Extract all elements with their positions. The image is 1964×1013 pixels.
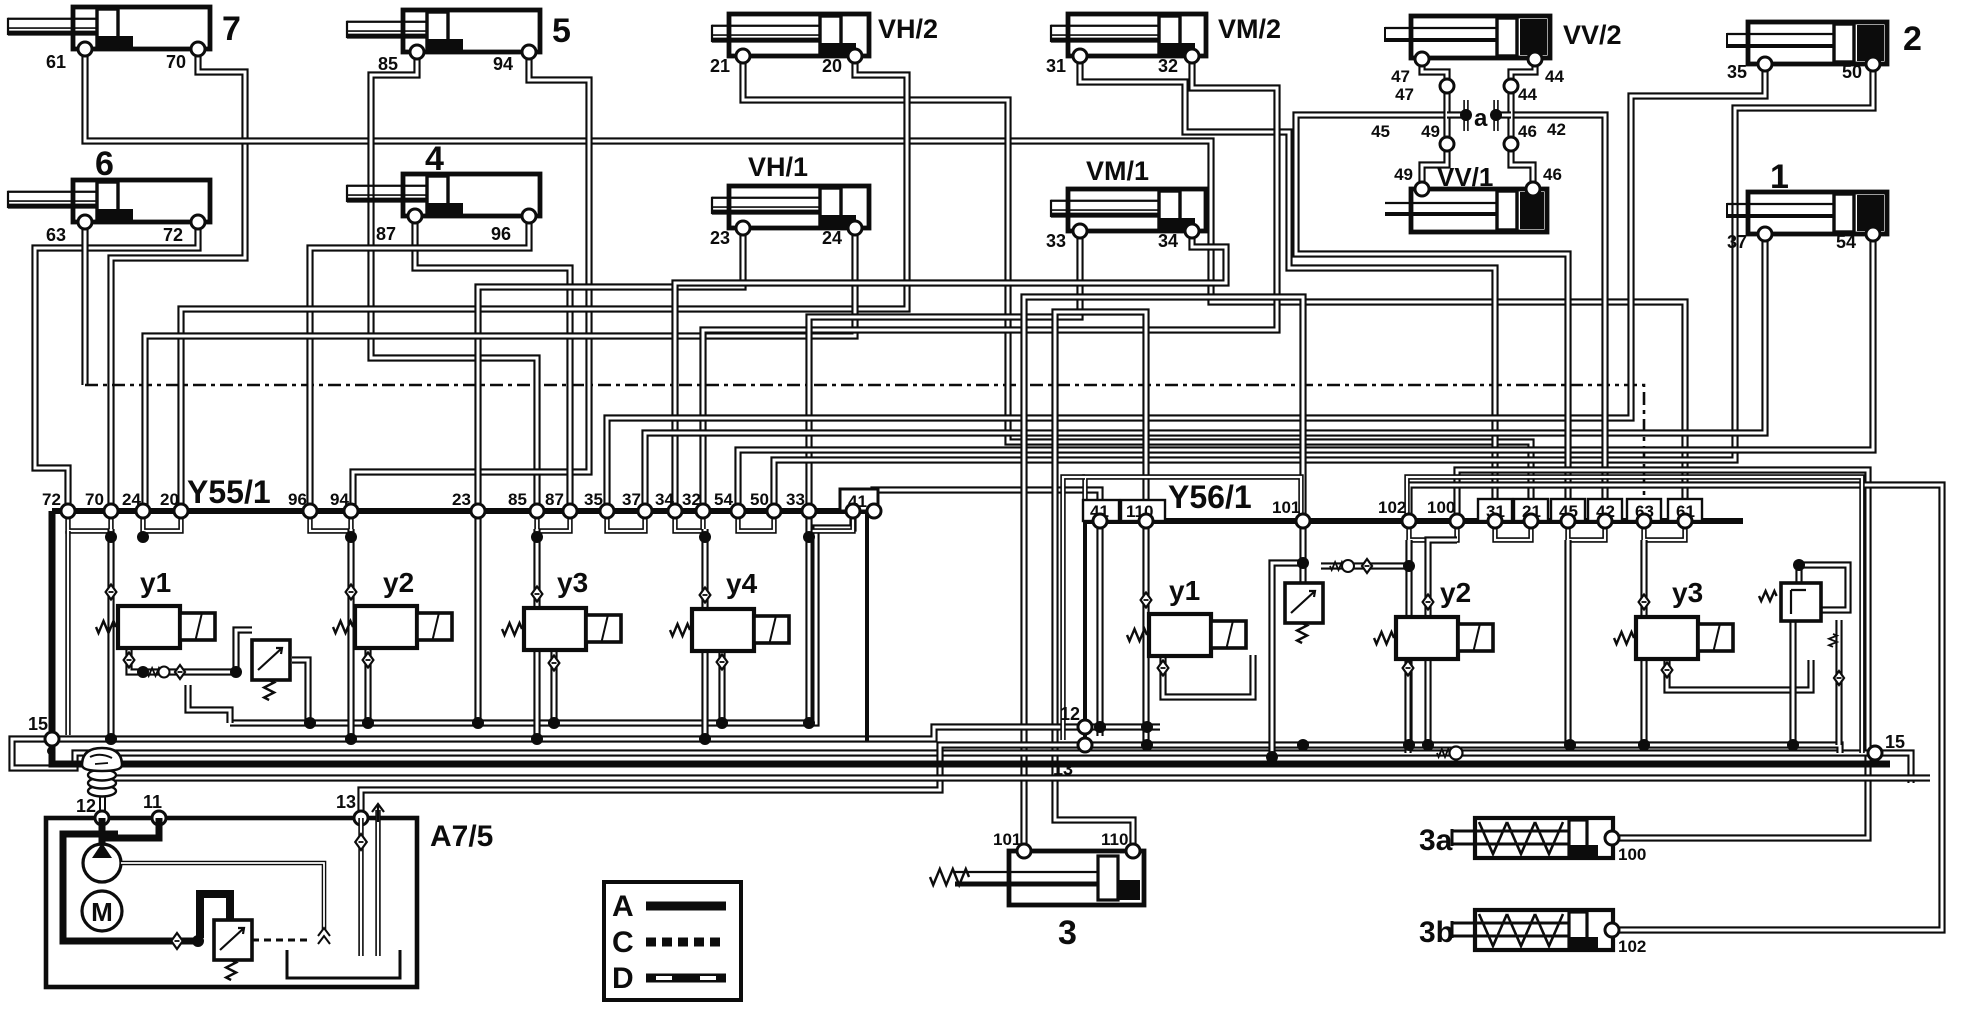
svg-text:44: 44 [1545,67,1564,86]
svg-text:VM/1: VM/1 [1086,156,1149,186]
wire Y56 y1 supply [1142,521,1149,745]
wire y3 supply [533,529,540,739]
svg-text:7: 7 [222,10,241,48]
junction Y56 bus dot 1570 [1564,739,1576,751]
svg-text:y2: y2 [1440,577,1471,608]
wire port23 internal [474,511,481,723]
svg-text:72: 72 [163,225,183,245]
wire net 72 [35,222,198,511]
junction Y55 stub dot 809 [803,717,815,729]
port Y55 72 [61,504,75,518]
junction Y55 feed 537 [531,531,543,543]
spring Y56 relief spring [1759,591,1777,601]
junction Y56 41 dot [1094,721,1106,733]
port 20 [848,49,862,63]
port Y55 33 [802,504,816,518]
junction Y55 feed 809 [803,531,815,543]
wire net 20 [181,56,907,511]
svg-text:3: 3 [1058,914,1077,952]
cylinder VH/1 body [712,186,869,228]
port Y56 41 [1093,514,1107,528]
svg-text:100: 100 [1427,498,1455,517]
wire net 101 [1024,297,1303,851]
orifice symbol pump line orifice [171,933,183,949]
port 23 [736,221,750,235]
spring cylinder 3b [1452,910,1613,950]
wire 13 down b [375,810,380,956]
svg-text:20: 20 [822,56,842,76]
spring cylinder 3a [1452,818,1613,858]
wire node a stem right [1493,100,1498,131]
port Y55 35 [600,504,614,518]
wire net 63 drop [81,222,88,385]
port 49b [1440,137,1454,151]
svg-text:101: 101 [1272,498,1300,517]
port Y55 34 [668,504,682,518]
wire net 49 [1422,144,1447,189]
svg-text:y1: y1 [1169,575,1200,606]
A7 pilot dashed [252,939,310,942]
wire net 100 [1457,470,1868,838]
port 63 [78,215,92,229]
svg-text:Y56/1: Y56/1 [1168,479,1252,515]
svg-text:D: D [612,962,634,995]
svg-text:M: M [91,897,113,927]
motor M [82,891,122,931]
wire Y56 pilot chain [1321,562,1409,569]
junction Y56 bus dot 1409 [1403,739,1415,751]
Y56 63 label box [1627,499,1661,521]
svg-text:72: 72 [42,490,61,509]
wire node a right link [1496,111,1511,118]
cylinder 2 body [1727,22,1887,64]
wire net 46 [1511,144,1533,189]
port 32 [1185,49,1199,63]
wire net 47 [1422,59,1447,144]
svg-text:23: 23 [452,490,471,509]
port 24 [848,221,862,235]
spring Y56 col spring [1829,634,1837,647]
junction Y56 bus dot 1303 [1297,739,1309,751]
svg-text:49: 49 [1394,165,1413,184]
wire Y56 bracket 31-21 [1495,521,1531,540]
orifice symbol y1 out [124,653,135,668]
wire Y56 label lid [1085,477,1301,521]
svg-text:102: 102 [1618,937,1646,956]
svg-text:102: 102 [1378,498,1406,517]
svg-text:12: 12 [1060,704,1080,724]
junction Y55 bus feed 537 [531,733,543,745]
wire y4 stub [718,653,725,723]
wire Y56 y2 side [1404,660,1411,753]
port 70 [191,42,205,56]
port 12 pump [95,811,109,825]
svg-text:94: 94 [493,54,513,74]
port Y55 94 [344,504,358,518]
svg-text:y3: y3 [557,567,588,598]
wire net 41 [874,490,1100,521]
wire Y55 bracket 85-87 [537,511,570,531]
wire Y56 bracket 45-42 [1568,521,1605,540]
wire y1 subcircuit drain [188,685,230,723]
port 101 cyl [1017,844,1031,858]
cylinder 6 body [8,180,210,222]
port Y55 41b [867,504,881,518]
legend line A [646,902,726,911]
svg-text:y4: y4 [726,568,758,599]
wire Y56 y3 stub [1667,657,1811,690]
wire Y56 relief top [1799,565,1848,610]
svg-text:42: 42 [1547,120,1566,139]
port 3a port [1605,831,1619,845]
svg-text:y1: y1 [140,567,171,598]
svg-text:31: 31 [1046,56,1066,76]
port 11 pump [152,811,166,825]
Y56 45 label box [1551,499,1585,521]
svg-text:32: 32 [1158,56,1178,76]
cylinder 7 body [8,7,210,49]
thick line pump feed 11 [104,818,159,838]
wire net 34 [675,231,1226,511]
svg-text:5: 5 [552,12,571,50]
check valve sym [318,928,330,944]
orifice symbol Y56 col orifice [1834,671,1844,685]
svg-text:85: 85 [508,490,527,509]
orifice symbol Y56 chain orifice [1362,559,1372,573]
wire net 94 [353,52,589,511]
svg-text:VH/1: VH/1 [748,152,808,182]
svg-text:6: 6 [95,145,114,183]
svg-text:y2: y2 [383,567,414,598]
spring Y56 chain spring [1330,562,1344,570]
suction arrow [372,804,384,822]
solenoid valve y1 [118,606,215,648]
port 47b [1440,79,1454,93]
svg-text:4: 4 [425,140,444,178]
pressure regulator Y55 reg [252,640,290,680]
junction Y55 bus feed 351 [345,733,357,745]
junction a-right [1490,109,1502,121]
junction Y55 feed 705 [699,531,711,543]
solenoid valve y2 [355,606,452,648]
svg-text:87: 87 [376,224,396,244]
junction Y56 bus dot 1428 [1422,739,1434,751]
wire net 37 [645,234,1765,511]
svg-text:23: 23 [710,228,730,248]
svg-text:12: 12 [76,796,96,816]
pressure regulator A7 reg [214,920,252,960]
svg-text:96: 96 [491,224,511,244]
wire Y56 45 feed [1564,540,1571,745]
valve block Y56/1 outline [1085,521,1743,745]
spring cyl3 spring [930,869,969,885]
cylinder 5 body [347,10,540,52]
port Y55 23 [471,504,485,518]
wire bus 12 supply [52,727,1160,739]
svg-text:2: 2 [1903,20,1922,58]
svg-text:C: C [612,926,634,959]
wire net 32 [703,56,1277,511]
spring Y55 reg spring [264,680,274,700]
orifice symbol Y56 y1 out [1158,661,1169,676]
wire 13 down a [358,818,363,956]
Y56 41 label box [1083,500,1119,521]
thick line pump left loop [63,834,196,941]
svg-text:A: A [612,890,634,923]
Y56 42 label box [1588,499,1622,521]
svg-text:47: 47 [1395,85,1414,104]
wire net 87 [415,216,570,511]
spring Y56 y2 spring [1374,632,1394,644]
wire Y55 bracket 24-20 [143,511,181,531]
thick line pump feed 12 [99,818,106,845]
wire Y56 outer left edge [1063,477,1085,740]
svg-text:21: 21 [710,56,730,76]
junction y1 sub j2 [230,666,242,678]
solenoid valve y4 [692,609,789,651]
svg-text:3a: 3a [1419,824,1453,857]
wire pump out [121,863,324,930]
svg-text:13: 13 [336,792,356,812]
cylinder 3 body [955,851,1144,905]
solenoid valve Y56 y3 [1636,617,1733,659]
port 44 [1528,52,1542,66]
svg-text:33: 33 [1046,231,1066,251]
svg-text:70: 70 [166,52,186,72]
spring Y56 y3 spring [1614,632,1634,644]
cylinder VM/2 body [1051,14,1206,56]
svg-text:44: 44 [1518,85,1537,104]
wire y4 supply feed [701,529,708,739]
orifice symbol y1 pilot orifice [175,665,185,679]
port 61 [78,42,92,56]
svg-text:A7/5: A7/5 [430,820,493,853]
thick line pump crossbar [86,831,118,838]
orifice symbol Y56 y3 in [1639,595,1650,610]
junction Y56 relief top [1793,559,1805,571]
junction Y55 stub dot 368 [362,717,374,729]
port 13 pump [354,811,368,825]
junction y1 sub j1 [137,666,149,678]
junction Y55 bus feed 111 [105,733,117,745]
port Y55 20 [174,504,188,518]
wire net 54 [738,234,1873,511]
svg-text:110: 110 [1101,830,1128,849]
pressure regulator Y56 reg [1285,583,1323,623]
wire y1 reg feed [188,668,236,675]
junction Y55 stub dot 554 [548,717,560,729]
wire Y55 stub bus [230,511,853,723]
wire y3 stub [550,652,557,723]
wire Y55 bracket 72-70 [68,511,111,531]
cylinder VM/1 body [1051,189,1206,231]
cylinder 1 body [1727,192,1887,234]
wire net 63 (dash-dot) [85,385,1644,521]
wire Y56 bracket 102-100 [1409,521,1457,540]
port Y56 61 [1678,514,1692,528]
port 87 [408,209,422,223]
wire net 24 [145,228,855,511]
Y56 31 label box [1478,499,1512,521]
wire y1 reg loop [236,630,252,672]
junction Y55 stub dot 478 [472,717,484,729]
solenoid valve Y56 y1 [1149,614,1246,656]
wire Y55 bracket 33-41x [809,511,853,531]
wire Y55 bracket 34-32 [675,511,703,531]
port 35 [1758,57,1772,71]
spring y2 spring [333,621,353,633]
svg-text:85: 85 [378,54,398,74]
junction Y56 bus dot 1272 [1266,751,1278,763]
wire y1 supply [107,529,114,739]
orifice symbol y1 in [106,585,117,600]
svg-text:3b: 3b [1419,916,1454,949]
svg-text:49: 49 [1421,122,1440,141]
wire node a stem left [1463,100,1468,131]
solenoid valve y3 [524,608,621,650]
svg-text:24: 24 [822,228,842,248]
wire Y56 101 internal [1272,521,1303,757]
svg-text:Y55/1: Y55/1 [187,474,271,510]
port 110 cyl [1126,844,1140,858]
svg-text:87: 87 [545,490,564,509]
svg-text:a: a [1474,105,1488,132]
svg-text:46: 46 [1518,122,1537,141]
cylinder VV/1 body [1385,189,1547,232]
wire Y56 right lid [1407,477,1862,753]
orifice symbol Y56 y2 in [1423,595,1434,610]
junction Y56 102 j [1403,560,1415,572]
spring bus W [1437,749,1450,757]
wire y2 supply [347,529,354,739]
port 31 [1073,49,1087,63]
port Y56 100 [1450,514,1464,528]
junction Y55 stub dot 722 [716,717,728,729]
wire bus 15 left bracket [12,739,1911,783]
orifice symbol y4 in [700,588,711,603]
svg-text:34: 34 [1158,231,1178,251]
wire net 21 [743,56,1531,521]
port Y55 96 [303,504,317,518]
wire net 61 [85,49,1685,521]
port Y56 63 [1637,514,1651,528]
junction Y56 101 j [1297,557,1309,569]
junction Y55 bus feed 705 [699,733,711,745]
wire net 50 [774,64,1873,511]
solenoid valve Y56 y2 [1396,617,1493,659]
port Y56 110 [1139,514,1153,528]
junction 15 left corner [47,747,55,755]
spring y1 pilot spring [147,668,161,676]
svg-text:63: 63 [46,225,66,245]
port Y56 42 [1598,514,1612,528]
wire y2 stub [364,650,371,723]
wire Y56 y2 supply [1428,540,1457,745]
port Y55 87 [563,504,577,518]
legend box [604,882,741,1000]
svg-text:61: 61 [46,52,66,72]
Y56 61 label box [1668,499,1702,521]
wire net 96 [310,216,529,511]
Y56 110 label box [1121,500,1165,521]
Y56 relief valve [1781,583,1821,621]
wire Y55 72 feed [65,531,70,735]
port 34 [1185,224,1199,238]
junction Y56 12 dot [1141,721,1153,733]
wire net 44 [1511,59,1535,144]
orifice symbol y2 in [346,585,357,600]
svg-text:y3: y3 [1672,577,1703,608]
port Y55 70 [104,504,118,518]
legend line C [646,938,726,947]
port 47 [1415,52,1429,66]
svg-text:35: 35 [1727,62,1747,82]
thick line A-line main [52,742,1890,764]
wire net 70 [111,49,245,511]
junction Y55 feed 143 [137,531,149,543]
svg-text:100: 100 [1618,845,1646,864]
orifice symbol y3 in [532,587,543,602]
junction Y55 stub dot 310 [304,717,316,729]
pump circle [83,843,121,882]
port 50 [1866,57,1880,71]
pump unit A7/5 box [46,818,417,987]
junction Y56 bus dot 1644 [1638,739,1650,751]
cylinder 4 body [347,174,540,216]
orifice symbol Y56 y2 out [1403,661,1414,676]
port 3b port [1605,923,1619,937]
svg-text:54: 54 [1836,232,1856,252]
spring Y56 y1 spring [1127,629,1147,641]
svg-text:50: 50 [750,490,769,509]
cylinder VV/2 body [1385,16,1550,58]
wire bus lower long [100,774,1930,781]
wire net 85 [371,52,537,511]
wire port33 internal [805,511,812,723]
port Y56 101 [1296,514,1310,528]
wire Y56 102 internal [1405,540,1412,745]
wire net 42 [1511,115,1605,521]
wire net 102 [1409,485,1942,930]
port Y55 32 [696,504,710,518]
orifice symbol Y56 y3 out [1662,663,1673,678]
orifice symbol y3 out [549,656,560,671]
wire Y55 bracket 54-50 [738,511,774,531]
wire y1 pilot row [143,668,188,675]
Y55 41 label box [840,489,878,511]
junction Y55 feed 111 [105,531,117,543]
wire y1 reg out [292,660,308,723]
port 54 [1866,227,1880,241]
port 46 [1526,182,1540,196]
svg-text:54: 54 [714,490,733,509]
port Y56 31 [1488,514,1502,528]
Y56 21 label box [1514,499,1548,521]
port Y55 54 [731,504,745,518]
svg-text:101: 101 [993,830,1021,849]
wire net 31 [1080,56,1495,521]
port 15 left [45,732,59,746]
port Y55 50 [767,504,781,518]
wire bus 13 return [361,745,1085,817]
regulator top U [200,894,230,938]
wire Y56 bracket 63-61 [1644,521,1685,540]
junction pump j [192,935,204,947]
wire node a left link [1447,111,1466,118]
orifice symbol Y56 y1 in [1141,593,1152,608]
port 15 right [1868,746,1882,760]
spring A7 reg spring [226,960,236,980]
